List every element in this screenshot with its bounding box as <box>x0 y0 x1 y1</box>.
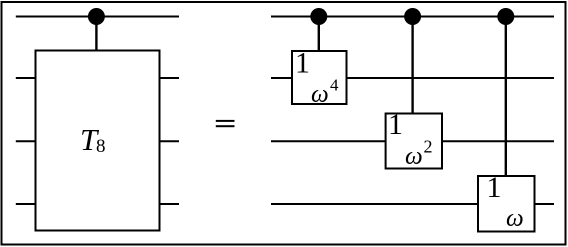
svg-text:ω: ω <box>506 205 524 232</box>
svg-text:4: 4 <box>330 76 339 95</box>
svg-text:ω: ω <box>405 143 423 170</box>
svg-text:1: 1 <box>487 171 502 204</box>
svg-text:8: 8 <box>96 136 106 157</box>
svg-text:1: 1 <box>295 46 310 79</box>
svg-text:1: 1 <box>388 108 403 141</box>
svg-text:ω: ω <box>311 81 329 108</box>
svg-text:2: 2 <box>424 136 433 156</box>
